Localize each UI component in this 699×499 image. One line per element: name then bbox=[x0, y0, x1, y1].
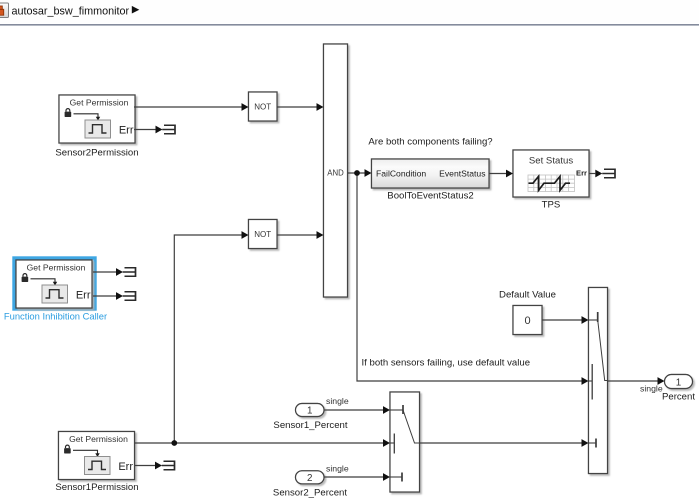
svg-text:Sensor2_Percent: Sensor2_Percent bbox=[273, 487, 347, 498]
svg-text:Sensor1_Percent: Sensor1_Percent bbox=[273, 420, 347, 431]
svg-text:Default Value: Default Value bbox=[499, 289, 556, 300]
svg-text:Err: Err bbox=[576, 169, 587, 178]
svg-text:NOT: NOT bbox=[254, 103, 271, 112]
svg-text:0: 0 bbox=[524, 315, 530, 327]
svg-text:1: 1 bbox=[676, 377, 681, 388]
svg-text:Sensor2Permission: Sensor2Permission bbox=[55, 148, 138, 159]
svg-text:single: single bbox=[640, 384, 663, 394]
svg-text:single: single bbox=[326, 463, 349, 473]
svg-text:Function Inhibition Caller: Function Inhibition Caller bbox=[4, 311, 107, 322]
svg-text:single: single bbox=[326, 396, 349, 406]
svg-text:BoolToEventStatus2: BoolToEventStatus2 bbox=[387, 191, 473, 202]
svg-text:2: 2 bbox=[307, 473, 312, 484]
svg-text:EventStatus: EventStatus bbox=[439, 169, 485, 179]
svg-text:Set Status: Set Status bbox=[529, 156, 573, 167]
svg-text:If both sensors failing, use d: If both sensors failing, use default val… bbox=[362, 358, 531, 369]
svg-text:1: 1 bbox=[307, 406, 312, 417]
svg-text:TPS: TPS bbox=[542, 199, 561, 210]
svg-text:Percent: Percent bbox=[662, 391, 695, 402]
svg-text:FailCondition: FailCondition bbox=[376, 169, 426, 179]
svg-text:AND: AND bbox=[327, 168, 344, 177]
svg-text:NOT: NOT bbox=[254, 230, 271, 239]
svg-text:Sensor1Permission: Sensor1Permission bbox=[55, 482, 138, 493]
svg-text:autosar_bsw_fimmonitor: autosar_bsw_fimmonitor bbox=[12, 6, 130, 18]
svg-text:Are both components failing?: Are both components failing? bbox=[368, 137, 492, 148]
